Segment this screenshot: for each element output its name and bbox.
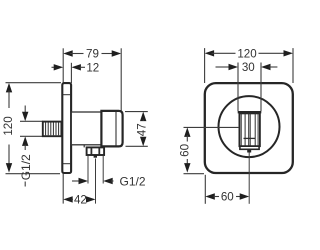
dimension 79 (depth overall, side view) xyxy=(63,48,121,61)
dimension 30 (holder width) xyxy=(216,61,278,74)
svg-text:60: 60 xyxy=(221,191,234,204)
svg-text:120: 120 xyxy=(2,116,15,135)
extension line: plate bottom (left) xyxy=(6,173,61,175)
holder base circle xyxy=(219,96,280,157)
svg-text:60: 60 xyxy=(179,144,192,157)
hose outlet nut (side view) xyxy=(84,145,104,158)
dimension 42 (wall to outlet axis) xyxy=(63,194,95,207)
escutcheon rounded square (front view) xyxy=(205,83,293,173)
extension line: inlet nipple bottom xyxy=(20,135,43,137)
svg-text:42: 42 xyxy=(74,194,87,207)
extension line: plate front face xyxy=(70,63,72,83)
dimension 12 (plate thickness) xyxy=(52,62,100,75)
dimension G1/2 (outlet, bottom of side view) xyxy=(72,174,146,188)
svg-text:G1/2: G1/2 xyxy=(120,174,146,188)
extension line: holder left edge xyxy=(237,63,239,112)
extension line: body front face (top) xyxy=(120,48,122,111)
extension line: inlet nipple top xyxy=(20,120,43,122)
svg-text:47: 47 xyxy=(135,123,148,136)
inlet nipple G1/2 (threaded, behind wall) xyxy=(43,122,62,137)
holder body back block (side view) xyxy=(71,112,101,145)
dimension G1/2 (inlet thread, left) xyxy=(19,106,33,187)
dimension 120 (plate height, left) xyxy=(2,83,15,173)
svg-text:G1/2: G1/2 xyxy=(19,154,33,180)
svg-text:79: 79 xyxy=(86,48,99,61)
svg-text:30: 30 xyxy=(242,61,255,74)
dimension 60 (bottom, front view) xyxy=(205,191,249,204)
centerline below circle (front view) xyxy=(248,153,250,204)
holder front part (side view, rounded) xyxy=(101,111,122,146)
extension line: holder right edge xyxy=(260,63,262,112)
dimension 60 (vertical, front view left) xyxy=(179,127,239,173)
extension line: escutcheon right (top) xyxy=(292,48,294,83)
extension line: plate top (left) xyxy=(6,82,62,84)
holder clamp (front view) xyxy=(238,111,262,153)
extension line: escutcheon left (top) xyxy=(204,48,206,83)
wall plate (side view) xyxy=(62,83,71,173)
extension line: escutcheon left (bottom) xyxy=(204,175,206,204)
dimension 47 (body height, side view) xyxy=(125,112,148,147)
extension line: wall face (top) xyxy=(62,48,64,83)
dimension 120 (escutcheon width, front view) xyxy=(205,48,293,61)
outlet thread OD lines (below nut) xyxy=(87,156,89,184)
svg-text:12: 12 xyxy=(86,62,99,75)
extension line: wall face (bottom) xyxy=(62,174,64,204)
outlet centerline xyxy=(95,159,97,204)
svg-text:120: 120 xyxy=(237,48,256,61)
